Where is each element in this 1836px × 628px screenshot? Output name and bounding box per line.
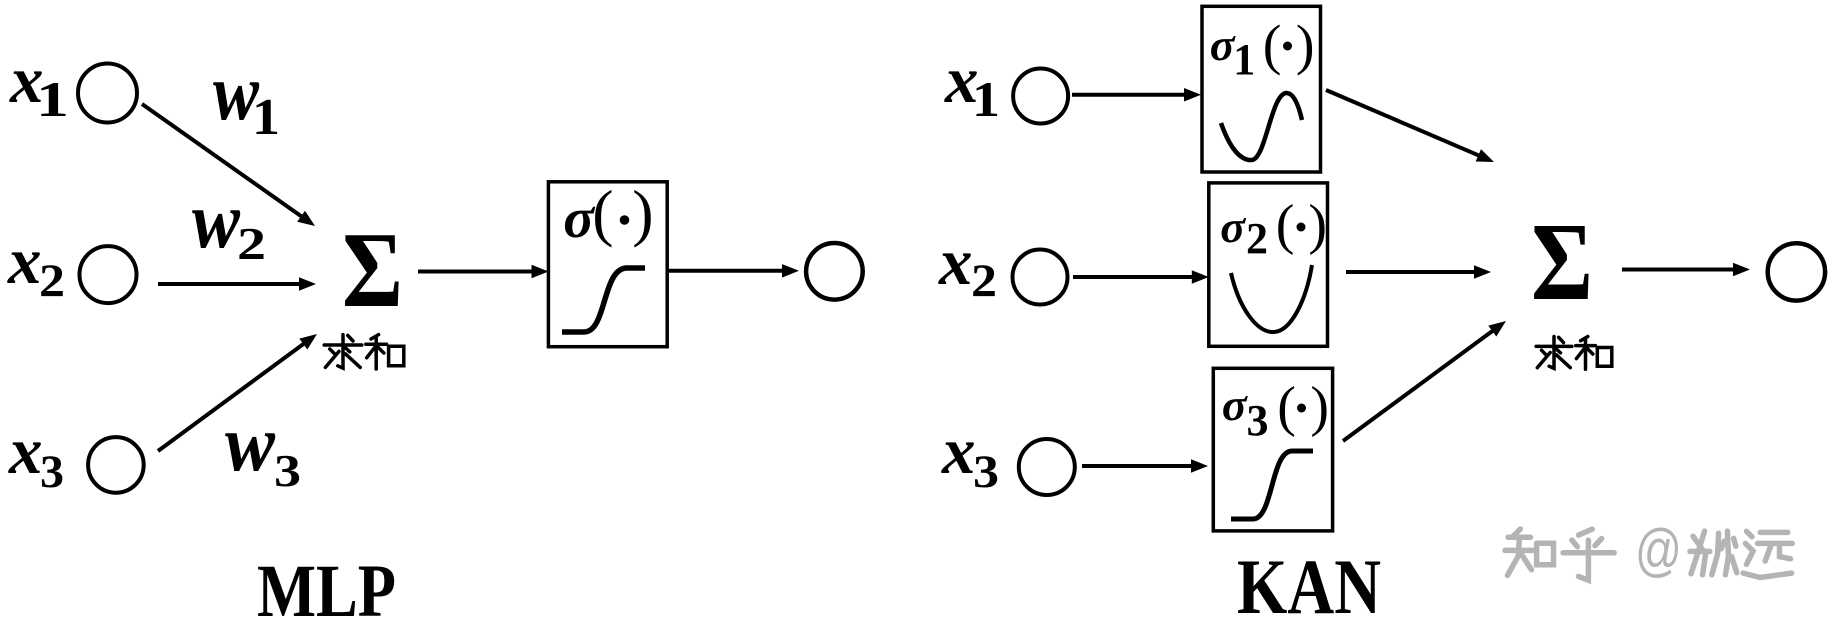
wire sigma1 -> sum <box>1326 90 1494 162</box>
svg-text:3: 3 <box>1247 396 1269 445</box>
svg-text:1: 1 <box>972 71 1000 127</box>
node x1 input circle (KAN) <box>1013 69 1068 124</box>
node x2 input circle (KAN) <box>1013 250 1068 305</box>
svg-text:σ: σ <box>1220 201 1246 252</box>
svg-text:w: w <box>192 177 241 265</box>
svg-text:(: ( <box>1263 15 1282 77</box>
box sigma1(.) <box>1202 6 1321 172</box>
svg-text:): ) <box>1308 194 1327 256</box>
output node circle (MLP) <box>806 243 863 300</box>
svg-text:x: x <box>8 414 43 488</box>
label w3 <box>225 400 301 496</box>
svg-text:3: 3 <box>40 446 64 498</box>
label x1 (KAN) <box>944 43 1000 127</box>
svg-text:(: ( <box>1276 194 1295 256</box>
svg-text:1: 1 <box>36 71 69 127</box>
wire x1 -> sum (w1) <box>142 104 315 226</box>
node x3 input circle (MLP) <box>88 437 144 493</box>
svg-text:MLP: MLP <box>257 550 396 628</box>
label sigma(.) (MLP box) <box>563 177 653 250</box>
wire x3 -> sigma3 box <box>1082 459 1208 473</box>
svg-text:2: 2 <box>1246 214 1268 263</box>
node x2 input circle (MLP) <box>80 246 137 303</box>
box sigma2(.) <box>1209 183 1328 346</box>
activation box sigma(.) (MLP) <box>548 182 667 347</box>
node x3 input circle (KAN) <box>1019 439 1075 495</box>
node x1 input circle (MLP) <box>78 64 137 123</box>
wire sum -> activation box <box>418 265 549 278</box>
box sigma3(.) <box>1213 368 1332 531</box>
sine curve (sigma1 box) <box>1221 93 1302 160</box>
label x3 (MLP) <box>8 414 64 498</box>
label w2 <box>192 177 266 269</box>
svg-text:(: ( <box>1277 376 1296 438</box>
svg-text:w: w <box>225 400 276 488</box>
svg-text:KAN: KAN <box>1237 543 1381 628</box>
svg-text:Σ: Σ <box>1531 201 1593 324</box>
wire x1 -> sigma1 box <box>1072 88 1201 102</box>
label sigma2(.) <box>1220 194 1327 263</box>
label qiuhe (summation) under MLP Sigma <box>324 335 404 369</box>
svg-text:@: @ <box>1635 518 1682 583</box>
label x2 (MLP) <box>7 224 65 307</box>
svg-text:x: x <box>941 414 976 488</box>
svg-text:): ) <box>632 177 653 248</box>
svg-text:3: 3 <box>274 446 301 496</box>
svg-text:1: 1 <box>1233 35 1255 84</box>
wire sum -> output (KAN) <box>1622 263 1750 276</box>
label x2 (KAN) <box>938 225 997 307</box>
svg-text:σ: σ <box>1222 379 1248 430</box>
watermark zhihu @yaoyuan <box>1505 518 1792 583</box>
label qiuhe (summation) under KAN Sigma <box>1536 337 1612 370</box>
label sigma3(.) <box>1222 376 1329 445</box>
wire x2 -> sigma2 box <box>1073 270 1209 284</box>
label w1 <box>213 49 280 146</box>
svg-text:(: ( <box>592 177 613 248</box>
wire sigma2 -> sum <box>1346 265 1491 279</box>
label sigma1(.) <box>1210 15 1315 85</box>
wire sigma3 -> sum <box>1343 321 1506 441</box>
svg-text:x: x <box>7 224 42 298</box>
svg-text:2: 2 <box>39 255 65 307</box>
svg-text:1: 1 <box>252 89 280 146</box>
wire x2 -> sum (w2) <box>158 277 316 291</box>
wire x3 -> sum (w3) <box>158 334 317 451</box>
svg-text:2: 2 <box>971 255 997 307</box>
svg-text:3: 3 <box>973 446 999 498</box>
svg-text:x: x <box>938 225 973 299</box>
output node circle (KAN) <box>1768 243 1825 300</box>
wire activation -> output (MLP) <box>667 264 799 278</box>
svg-text:2: 2 <box>237 219 266 269</box>
svg-text:): ) <box>1310 376 1329 438</box>
parabola curve (sigma2 box) <box>1231 265 1312 332</box>
svg-text:σ: σ <box>1210 19 1236 70</box>
svg-text:): ) <box>1296 15 1315 77</box>
label x1 (MLP) <box>9 43 69 127</box>
sigmoid curve (sigma3 box) <box>1231 451 1313 519</box>
sigmoid curve (MLP activation) <box>562 268 645 332</box>
svg-text:Σ: Σ <box>342 211 403 330</box>
label x3 (KAN) <box>941 414 999 498</box>
